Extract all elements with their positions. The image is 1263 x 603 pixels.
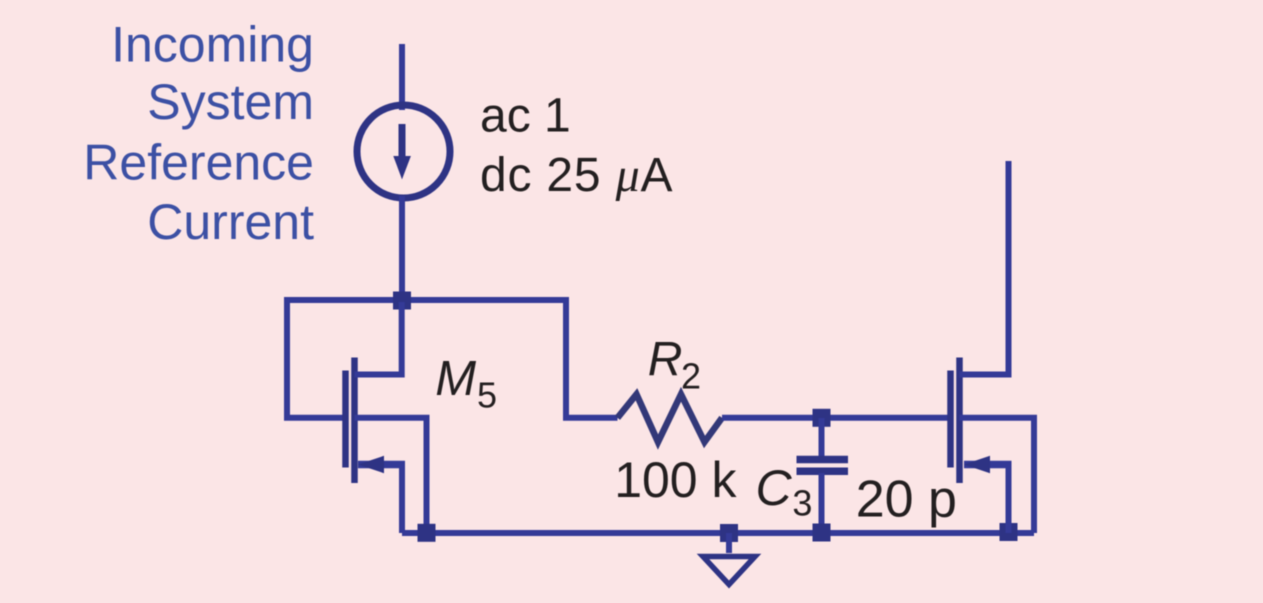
wire: C3 bottom plate to bottom bus: [819, 473, 825, 533]
M5 source lead: [358, 461, 405, 469]
Q2 source arrow: [964, 456, 990, 473]
ground stem: [726, 533, 732, 553]
Q2 source lead: [964, 461, 1012, 469]
junction: right FET source at bus: [1000, 523, 1018, 541]
M5 source arrow: [358, 456, 384, 473]
current source arrow: [393, 124, 411, 179]
svg-text:System: System: [147, 74, 314, 130]
svg-text:2: 2: [681, 356, 701, 397]
svg-text:R: R: [648, 333, 683, 386]
node A junction: [393, 292, 411, 310]
resistor R2: [618, 394, 723, 442]
svg-text:dc 25 μA: dc 25 μA: [480, 149, 673, 202]
wire: top lead into current source: [399, 44, 405, 110]
svg-text:3: 3: [792, 483, 812, 524]
junction: ground node: [720, 524, 738, 542]
current source I1: [357, 105, 450, 198]
bottom bus: [402, 530, 1034, 536]
wire: current source to node A: [399, 196, 405, 300]
transistor Q2 channel bar: [956, 358, 963, 484]
svg-text:ac 1: ac 1: [480, 90, 571, 143]
svg-text:M: M: [435, 352, 476, 406]
label: Incoming System Reference Current: [83, 17, 314, 251]
wire: M5 gate lead: [284, 415, 343, 421]
wire: lead to resistor R2: [563, 415, 618, 421]
ground symbol: [703, 557, 755, 585]
capacitor C3 bottom plate: [797, 467, 849, 475]
svg-text:5: 5: [477, 375, 497, 416]
svg-text:Incoming: Incoming: [111, 17, 314, 73]
transistor Q2 gate bar (right FET): [947, 371, 954, 468]
transistor M5 gate bar: [342, 371, 349, 468]
node B junction (C3 top): [813, 409, 831, 427]
svg-text:100 k: 100 k: [614, 452, 737, 508]
Q2 drain lead: [960, 161, 1009, 375]
M5 bulk lead: [355, 418, 427, 531]
Q2 bulk lead: [960, 418, 1035, 533]
svg-text:C: C: [756, 460, 793, 516]
wire: node B to C3 top plate: [819, 418, 825, 458]
capacitor C3 top plate: [797, 456, 849, 464]
svg-text:Current: Current: [147, 194, 314, 250]
transistor M5 channel bar: [351, 358, 358, 484]
junction: C3 bottom at bus: [813, 524, 831, 542]
wire: R2 to right FET gate: [722, 415, 948, 421]
junction: M5 bulk at bottom bus: [418, 524, 436, 542]
M5 drain lead: [355, 302, 402, 375]
svg-text:Reference: Reference: [83, 135, 314, 191]
svg-text:20 p: 20 p: [856, 471, 957, 529]
wire: top bus: [287, 300, 566, 418]
